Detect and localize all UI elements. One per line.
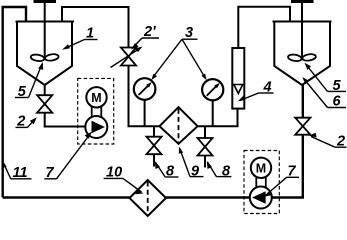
- svg-text:7: 7: [46, 165, 55, 181]
- wire: valve 8 left bottom stub: [153, 154, 155, 166]
- wire: left gauge stem: [144, 100, 146, 126]
- svg-text:8: 8: [222, 163, 231, 179]
- svg-text:7: 7: [288, 164, 297, 180]
- label 6 underline and leader: [328, 107, 347, 109]
- motor M2 circle: [251, 158, 271, 178]
- gauge 3 left (manometer): [134, 78, 156, 100]
- tank T1 agitator shaft: [44, 3, 46, 60]
- svg-text:2: 2: [336, 133, 345, 149]
- label 10 underline and leader: [104, 177, 123, 179]
- svg-text:4: 4: [263, 79, 272, 95]
- tank T1 body and cone: [17, 22, 72, 86]
- valve 8 left: [147, 137, 162, 155]
- wire: T1 cone outlet down to valve 2: [44, 85, 46, 95]
- label 4 underline and leader: [259, 92, 274, 94]
- pump P1 circle: [85, 116, 107, 138]
- valve 8 right: [198, 138, 213, 156]
- svg-text:M: M: [91, 91, 101, 105]
- tank T2 lid: [273, 21, 332, 23]
- wire: valve 2 to pump P1 suction: [45, 113, 86, 127]
- wire: bottom pipe filter 10 to pump P2: [166, 196, 250, 198]
- wire: bottom pipe from left edge to filter 10: [3, 196, 130, 198]
- svg-text:M: M: [256, 161, 266, 175]
- label 3 underline and fork leaders: [182, 38, 198, 40]
- arrowhead label 5 right: [305, 63, 312, 70]
- label 1 leader and underline: [85, 39, 98, 41]
- arrowhead label 3 right: [201, 74, 206, 81]
- filter 10 (diamond with dashed element): [130, 180, 167, 216]
- wire: right riser valve 2 to T2 cone outlet: [302, 85, 304, 118]
- pump P2 circle: [250, 187, 272, 209]
- valve 2 (left, under T1): [37, 95, 52, 113]
- arrowhead label 2': [131, 43, 139, 50]
- arrowhead label 2 right: [309, 133, 317, 138]
- wire: T1 top outlet to valve 2': [62, 7, 129, 48]
- svg-text:5: 5: [18, 84, 27, 100]
- valve 2' adjustment stroke arrow: [111, 49, 140, 68]
- filter 9 (diamond with dashed element): [160, 107, 198, 144]
- svg-text:5: 5: [333, 78, 342, 94]
- wire: valve 8 right bottom stub: [204, 156, 206, 168]
- svg-text:2: 2: [16, 113, 25, 129]
- wire: drain drop to valve 8 right: [204, 126, 206, 138]
- wire: left loop pipe (11) from bottom line up left edge to tank T1 inlet: [3, 7, 26, 198]
- label 11 underline and leader: [11, 178, 32, 180]
- label 8 second underline and leader: [216, 176, 231, 178]
- tank T1 drive mount bar: [34, 0, 57, 3]
- wire: drain drop to valve 8 left: [153, 126, 155, 137]
- gauge 3 right (manometer): [202, 79, 223, 100]
- label 2' leader and underline: [142, 37, 159, 39]
- arrowhead label 6: [302, 77, 309, 84]
- tank T2 agitator propeller: [288, 53, 317, 62]
- label 5 left underline and leader: [15, 97, 29, 99]
- tank T1 lid: [16, 21, 75, 23]
- motor M1 coupling neck: [91, 107, 93, 117]
- label 9 underline and leader: [190, 176, 204, 178]
- svg-text:2': 2': [143, 24, 156, 40]
- arrowhead label 2 left: [30, 117, 37, 124]
- wire: right gauge stem: [212, 101, 214, 127]
- arrowhead label 8 second: [207, 161, 212, 169]
- pump unit P2 dashed enclosure: [244, 151, 279, 214]
- arrowhead label 4: [238, 95, 246, 101]
- tank T2 body and cone: [274, 22, 330, 86]
- arrowhead label 10: [136, 189, 144, 194]
- svg-text:9: 9: [191, 163, 199, 179]
- rotameter 4 body: [232, 48, 244, 109]
- label 2 right underline and leader: [335, 146, 347, 148]
- label 8 first underline and leader: [165, 176, 178, 178]
- pump P1 flow triangle: [92, 121, 106, 133]
- arrowhead label 5 left: [38, 62, 43, 70]
- arrowhead label 8 first: [155, 161, 160, 169]
- valve 2' (bypass control valve): [121, 48, 136, 66]
- arrowhead label 11: [2, 160, 7, 168]
- arrowhead label 7 left: [85, 132, 92, 139]
- label 2 left underline and leader: [16, 126, 28, 128]
- wire: header from filter 9 right vertex to rotameter bottom: [198, 109, 238, 127]
- svg-text:6: 6: [333, 94, 342, 110]
- tank T1 agitator propeller: [30, 53, 59, 62]
- svg-text:11: 11: [13, 165, 28, 181]
- motor M2 coupling neck: [255, 177, 257, 187]
- tank T2 agitator shaft: [301, 3, 303, 60]
- pump unit P1 dashed enclosure: [78, 78, 114, 144]
- svg-text:10: 10: [106, 164, 122, 180]
- motor M1 circle: [86, 87, 106, 107]
- pump P2 flow triangle: [252, 191, 266, 203]
- wire: bottom pipe pump P2 to right riser: [272, 135, 303, 198]
- arrowhead label 7 right: [264, 191, 272, 197]
- label 7 left underline and leader: [44, 178, 56, 180]
- arrowhead label 3 left: [151, 74, 157, 81]
- tank T2 drive mount bar: [291, 0, 314, 3]
- svg-text:8: 8: [166, 163, 175, 179]
- arrowhead label 1: [62, 44, 70, 50]
- arrowhead label 9: [179, 147, 183, 154]
- label 5 right underline and leader: [328, 90, 347, 92]
- svg-text:1: 1: [86, 26, 94, 42]
- svg-text:3: 3: [185, 25, 193, 41]
- wire: valve 2' bottom down to header: [129, 66, 160, 127]
- rotameter 4 float: [234, 85, 243, 94]
- wire: rotameter top up and over to tank T2 lid: [238, 7, 290, 48]
- valve 2 (right, on riser): [295, 118, 310, 135]
- label 7 right underline and leader: [287, 176, 299, 178]
